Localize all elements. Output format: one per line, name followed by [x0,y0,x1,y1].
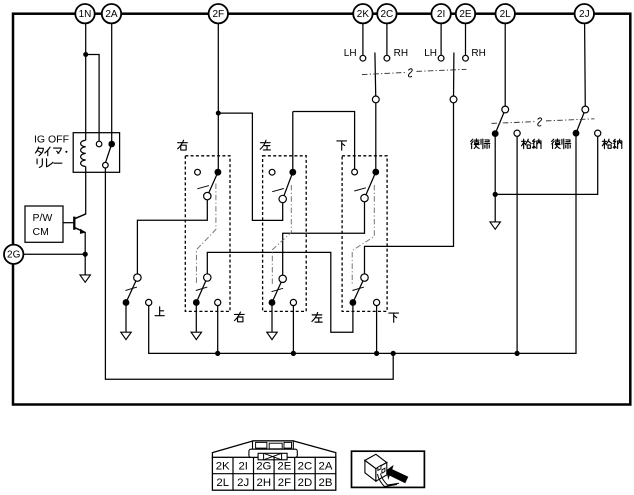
switch SW-L mirror adjust left [263,156,307,312]
label return RH [552,139,571,149]
wire 2A to relay contact [111,23,113,144]
wire UD-select common to down-switch pole [365,99,454,277]
wire branch 1N to relay contact [86,55,99,142]
svg-text:2I: 2I [238,461,248,473]
label down bottom [389,313,399,322]
terminal 2A [102,4,121,23]
ground below right switch [191,332,201,339]
wire up-switch contact to ground [125,303,127,333]
svg-text:2B: 2B [319,477,333,489]
svg-text:CM: CM [33,226,49,238]
wire left-switch contact to ground [271,303,273,333]
wire motor common bus [149,133,576,353]
wire 2G to emitter node [23,253,85,255]
svg-text:P/W: P/W [33,212,53,224]
svg-text:2K: 2K [216,461,230,473]
mechanical linkage select switches [362,69,467,77]
junction bus right-switch [215,351,220,356]
switch SW-LR mirror select left-right [360,53,390,103]
wire 2E to RH contact [465,23,467,58]
svg-text:IG OFF: IG OFF [34,134,69,146]
junction retract ground node [493,192,498,197]
ground below up switch [121,332,131,339]
junction bus down-switch [374,351,379,356]
terminal 2E [456,4,475,23]
switch SW-RET-RH mirror retract RH [573,106,601,137]
wire right-switch contact to ground [195,303,197,333]
svg-text:2K: 2K [357,9,370,20]
connector pinout table [212,441,335,490]
junction bus relay-common [391,351,396,356]
label store RH [602,139,621,148]
svg-text:2J: 2J [579,9,590,20]
switch SW-D mirror adjust down [342,156,387,312]
terminal 2L [496,4,515,23]
terminal 2G [4,245,23,264]
svg-text:LH: LH [424,48,437,59]
wire 2F junction to left-switch common [218,113,282,220]
terminal 2I [431,4,450,23]
junction bus left-switch [291,351,296,356]
label up [155,307,164,316]
terminal 2J [575,4,594,23]
wire relay coil to transistor collector [75,167,86,219]
svg-text:RH: RH [394,48,408,59]
wire 2I to LH contact [440,23,442,58]
terminal 2K [353,4,372,23]
relay label IG OFF timer relay [34,134,69,168]
label left bottom [312,312,322,322]
svg-text:2A: 2A [319,461,333,473]
terminal 2C [377,4,396,23]
wire right-switch to bus [217,303,219,354]
svg-text:2F: 2F [212,9,224,20]
wire 2L to retract switch LH [504,23,506,109]
svg-text:2G: 2G [7,250,21,261]
ground below left switch [267,332,277,339]
wire transistor emitter to ground [75,228,86,275]
label down top [337,141,347,150]
svg-text:LH: LH [344,48,357,59]
wire right-switch pole to up-switch pole [137,196,207,278]
ground below transistor [80,275,90,282]
svg-text:2J: 2J [237,477,249,489]
wire right-switch lower pole to down-switch motor contact [207,252,353,332]
switch SW-R mirror adjust right [185,156,230,312]
label return LH [471,139,490,149]
svg-text:2A: 2A [105,9,118,20]
relay K1 IG-OFF timer relay [73,133,119,173]
svg-text:2I: 2I [437,9,445,20]
label left top [260,140,270,150]
terminal 2F [209,4,228,23]
wire retract LH return contact to ground [494,134,496,222]
switch SW-RET-LH mirror retract LH [492,106,520,137]
junction 1N branch [83,52,88,57]
mechanical linkage retract switches [492,118,595,126]
junction emitter-2G node [83,252,88,257]
svg-text:1N: 1N [79,9,92,20]
svg-text:2C: 2C [298,461,313,473]
svg-text:2F: 2F [278,477,291,489]
svg-text:2H: 2H [257,477,272,489]
wire ground node to RH store contact [495,133,598,194]
label RH [394,48,408,59]
label store LH [522,139,541,148]
connector location icon [352,451,425,487]
P/W control module box [25,206,63,242]
wire left-switch to bus [292,303,294,354]
wire 2K to LH contact [362,23,364,58]
junction 2F branch [216,111,221,116]
wire down-switch to bus [376,303,378,354]
label right top [178,140,188,150]
svg-text:2D: 2D [298,477,313,489]
label right bottom [234,312,244,322]
label RH 2 [471,48,485,59]
wire relay common to motor bus [105,165,393,379]
label LH [344,48,357,59]
wire LR-select common to down-switch contact [375,99,377,172]
svg-text:2G: 2G [256,461,271,473]
terminal 1N [75,4,94,23]
svg-text:2E: 2E [459,9,472,20]
svg-text:2E: 2E [277,461,291,473]
svg-text:2L: 2L [500,9,512,20]
label LH 2 [424,48,437,59]
wire left-switch contact to down-switch contact [293,112,355,173]
svg-text:2C: 2C [381,9,394,20]
ground below retract switch [490,222,500,229]
wire 2J to retract switch RH [584,23,587,109]
svg-text:2L: 2L [216,477,229,489]
transistor Q1 [63,214,86,234]
wire 1N to relay coil [85,23,87,140]
svg-text:RH: RH [471,48,485,59]
wire left-switch lower pole to down-switch pole [283,198,365,279]
wire LH store contact to bus [516,133,518,353]
switch SW-U mirror adjust up [123,274,152,306]
switch SW-UD mirror select up-down [438,53,468,103]
wire 2F to right-switch contact [217,23,219,172]
wire 2C to RH contact [386,23,388,58]
junction bus store-contact [515,351,520,356]
